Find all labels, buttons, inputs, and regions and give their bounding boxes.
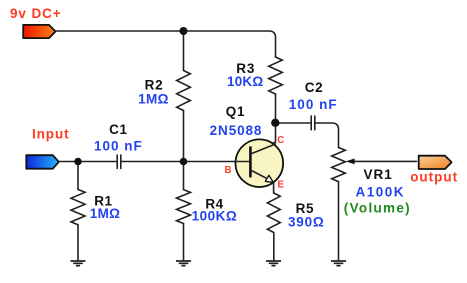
svg-text:B: B (225, 165, 232, 176)
svg-text:C: C (277, 135, 284, 146)
svg-text:2N5088: 2N5088 (210, 123, 263, 138)
svg-text:E: E (278, 180, 285, 191)
svg-text:Q1: Q1 (226, 104, 246, 119)
svg-text:1MΩ: 1MΩ (90, 206, 120, 221)
svg-text:output: output (410, 170, 458, 185)
svg-text:C2: C2 (305, 80, 323, 95)
svg-text:9v DC+: 9v DC+ (10, 6, 62, 21)
svg-text:10KΩ: 10KΩ (227, 74, 263, 89)
svg-text:100 nF: 100 nF (289, 97, 338, 112)
svg-text:C1: C1 (109, 122, 127, 137)
svg-text:1MΩ: 1MΩ (138, 91, 169, 106)
svg-text:Input: Input (32, 127, 70, 142)
svg-text:VR1: VR1 (364, 167, 393, 182)
svg-text:R2: R2 (145, 77, 164, 92)
svg-text:A100K: A100K (356, 185, 406, 200)
svg-text:100KΩ: 100KΩ (192, 209, 238, 224)
svg-text:100 nF: 100 nF (94, 138, 143, 153)
svg-text:390Ω: 390Ω (288, 215, 325, 230)
svg-text:(Volume): (Volume) (344, 200, 411, 215)
